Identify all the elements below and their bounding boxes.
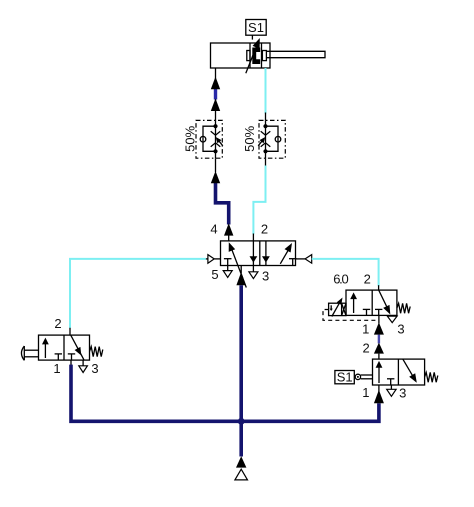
valve V4 left position: blocked port: [55, 354, 62, 360]
valve V3 left position: path 2 to 3: [250, 241, 258, 266]
wire cylinder left port to flow control V1: [215, 68, 217, 120]
valve V3 left position: path 1 to 4: [229, 242, 247, 287]
flow arrow up (supply): [236, 456, 246, 467]
wire valve V6 port 1 to bus: [374, 385, 384, 403]
valve V3 right pilot: [296, 255, 312, 264]
flow arrow up: [211, 98, 220, 111]
timer V5 pilot dashed line: [323, 310, 377, 321]
svg-text:1: 1: [362, 385, 369, 400]
svg-text:2: 2: [364, 272, 371, 287]
wire flow control V1 to valve port 4: [216, 158, 229, 241]
svg-text:3: 3: [91, 361, 98, 376]
cylinder A1 body: [211, 43, 271, 68]
svg-text:1: 1: [362, 321, 369, 336]
valve V6 right position: diagonal path: [403, 359, 417, 383]
compressed air supply P1: [235, 469, 248, 480]
timer V5 port 3 exhaust: [387, 316, 397, 323]
sensor S1 pointer arrow: [246, 38, 260, 73]
cylinder A1 piston magnet: [252, 48, 260, 65]
node junction: [238, 418, 245, 425]
timer V5 return spring: [397, 303, 410, 313]
valve V4 push button actuator: [21, 346, 38, 360]
timer valve V5 body (3/2 NC with delay, 6.0): [346, 290, 397, 315]
svg-text:3: 3: [262, 269, 269, 284]
svg-text:3: 3: [397, 321, 404, 336]
svg-text:5: 5: [211, 267, 218, 282]
flow arrow up (port 4): [224, 223, 233, 235]
svg-text:1: 1: [53, 361, 60, 376]
valve V6 left position: flow path 1 to 2: [376, 361, 383, 383]
svg-text:50%: 50%: [183, 125, 198, 151]
valve V3 port 1 stub: [236, 266, 246, 286]
wire cylinder right port to flow control V2: [265, 68, 267, 120]
svg-text:4: 4: [210, 222, 217, 237]
svg-text:2: 2: [261, 222, 268, 237]
valve V6 roller actuator with label S1: [335, 370, 373, 385]
valve V3 right position: diagonal path: [280, 243, 292, 264]
svg-text:6.0: 6.0: [333, 272, 348, 287]
flow arrow up: [211, 171, 220, 183]
valve V3 right position: blocked port: [289, 259, 297, 266]
valve V6 port 3 exhaust: [387, 385, 396, 396]
3/2-way push button valve V4 body: [39, 328, 90, 360]
valve V4 return spring: [90, 347, 103, 357]
valve V4 left position: flow path with arrow: [42, 338, 49, 358]
pilot wire valve V3 right to timer V5 port 2: [312, 259, 379, 290]
valve V6 return spring: [425, 372, 438, 382]
timer V5 right position: port 1 blocked: [375, 309, 382, 315]
label S1 (cylinder sensor): [246, 20, 266, 40]
5/2-way valve V3 body: [221, 241, 296, 266]
wire supply trunk to valve port 1: [239, 285, 243, 456]
valve V3 port 5 exhaust: [223, 266, 232, 278]
valve V3 left pilot: [205, 255, 221, 264]
svg-text:3: 3: [399, 386, 406, 401]
timer V5 left position: blocked port: [363, 309, 370, 315]
timer V5 right position: diagonal path 2 to 3: [379, 290, 391, 314]
svg-text:S1: S1: [337, 370, 353, 385]
pilot wire valve V3 left to valve V4 port 2: [70, 259, 206, 328]
3/2-way roller valve V6 (S1) body: [373, 359, 425, 385]
valve V3 right position: straight path: [262, 241, 270, 266]
flow control valve V1 (50%): [196, 120, 223, 158]
svg-text:S1: S1: [248, 20, 264, 35]
wire pressure bus: [70, 360, 72, 365]
valve V4 right position: port 1 blocked: [68, 354, 75, 360]
flow control valve V2 (50%): [258, 120, 285, 158]
valve V3 port 3 exhaust: [249, 266, 258, 279]
wire flow control V2 to valve port 2: [253, 158, 265, 241]
timer V5 left position: flow path with arrow: [350, 292, 357, 313]
cylinder A1 piston rod: [266, 51, 325, 57]
flow arrow up: [211, 77, 220, 90]
svg-text:50%: 50%: [242, 125, 257, 151]
valve V3 left position: port 5 blocked: [224, 259, 232, 266]
svg-text:2: 2: [362, 341, 369, 356]
svg-text:2: 2: [54, 316, 61, 331]
valve V4 right position: diagonal path 2 to 3: [71, 335, 84, 360]
valve V6 left position: port 3 blocked: [387, 379, 394, 385]
wire timer V5 port 1 to valve V6 port 2: [374, 315, 384, 359]
valve V4 port 3 exhaust: [79, 360, 88, 372]
timer V5 throttle attachment: [329, 298, 346, 317]
cylinder A1 cushion seals: [247, 51, 267, 61]
